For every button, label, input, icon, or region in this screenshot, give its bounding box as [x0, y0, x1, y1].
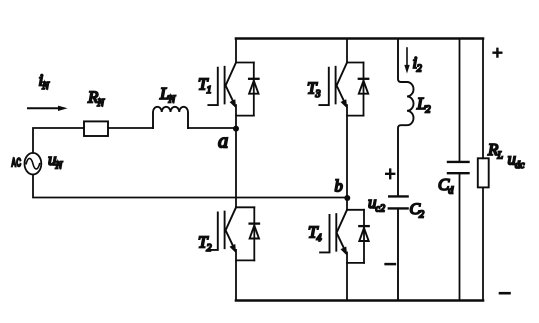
svg-text:T4: T4 [308, 223, 321, 245]
wire node a to T2 [235, 129, 237, 208]
label T1 [198, 75, 211, 97]
svg-text:uc2: uc2 [368, 193, 385, 215]
label plus C2 [386, 170, 394, 179]
wire ac source bottom lead to node b [33, 175, 347, 198]
ac source u_N [25, 153, 42, 175]
svg-text:T2: T2 [198, 233, 211, 255]
svg-text:T1: T1 [198, 75, 211, 97]
label i2 [413, 53, 422, 75]
label minus dc bus [500, 292, 510, 295]
svg-text:C2: C2 [410, 201, 425, 221]
resistor R_N [84, 121, 108, 136]
label C2 [410, 201, 425, 221]
svg-text:Cd: Cd [438, 175, 454, 197]
wire ac source top lead [33, 128, 84, 153]
label L2 [416, 94, 430, 116]
inductor L_N [153, 107, 188, 128]
svg-text:L2: L2 [416, 94, 430, 116]
label T2 [198, 233, 211, 255]
label R_N [87, 87, 105, 109]
node a [233, 126, 239, 132]
transistor T3 [319, 39, 368, 199]
label u_dc [508, 150, 526, 172]
label T3 [307, 78, 320, 100]
svg-text:T3: T3 [307, 78, 320, 100]
svg-text:RN: RN [87, 87, 105, 109]
svg-text:b: b [335, 177, 343, 196]
diode D2 [253, 207, 255, 260]
transistor T1 [208, 39, 258, 129]
svg-text:iN: iN [39, 71, 51, 93]
node b [344, 195, 350, 201]
label T4 [308, 223, 321, 245]
transistor T4 [320, 198, 369, 301]
label L_N [159, 84, 176, 106]
transistor T2 [208, 207, 259, 300]
wire L_N to node a [188, 127, 236, 129]
current arrow i2 [404, 48, 409, 74]
svg-text:udc: udc [508, 150, 526, 172]
svg-text:RL: RL [487, 140, 503, 162]
svg-text:i2: i2 [413, 53, 422, 75]
label minus C2 [386, 263, 395, 266]
diode D1 [253, 63, 255, 116]
label u_c2 [368, 193, 385, 215]
svg-text:LN: LN [159, 84, 176, 106]
wire R_N to L_N [108, 127, 153, 129]
label a [218, 131, 228, 153]
label plus dc bus [494, 49, 502, 57]
svg-text:uN: uN [48, 150, 64, 172]
capacitor C2 [389, 196, 408, 300]
label AC [11, 158, 21, 170]
label b [335, 177, 343, 196]
inductor L2 [398, 39, 414, 197]
capacitor Cd [448, 39, 469, 301]
svg-text:AC: AC [11, 158, 21, 170]
resistor R_L [478, 39, 489, 301]
wire bottom dc rail [236, 299, 483, 302]
diode D3 [363, 63, 365, 116]
label u_N [48, 150, 64, 172]
label R_L [487, 140, 503, 162]
label i_N [39, 71, 51, 93]
current arrow i_N [28, 106, 68, 111]
svg-text:a: a [218, 131, 228, 153]
wire top dc rail [236, 37, 483, 40]
label Cd [438, 175, 454, 197]
diode D4 [363, 210, 365, 263]
